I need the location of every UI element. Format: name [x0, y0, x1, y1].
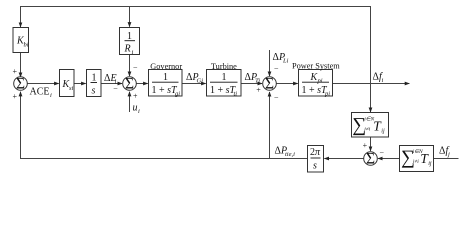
svg-text:−: − [380, 149, 385, 158]
svg-text:+: + [363, 141, 368, 150]
svg-text:1: 1 [127, 31, 132, 42]
svg-text:j≠i: j≠i [412, 159, 420, 165]
svg-text:u: u [133, 103, 138, 114]
svg-text:+: + [12, 92, 17, 101]
svg-text:pi: pi [317, 78, 323, 85]
svg-text:Power System: Power System [292, 61, 340, 70]
svg-text:Σ: Σ [265, 76, 274, 93]
svg-text:j≠i: j≠i [363, 127, 371, 133]
svg-text:1: 1 [92, 73, 97, 84]
svg-text:pi: pi [324, 91, 330, 98]
svg-text:si: si [69, 85, 74, 92]
svg-text:ACE: ACE [30, 87, 50, 98]
svg-text:i: i [382, 77, 384, 84]
svg-text:−: − [274, 93, 279, 102]
svg-text:+: + [256, 86, 261, 95]
svg-text:Ti: Ti [255, 78, 260, 85]
svg-text:−: − [113, 85, 118, 94]
svg-text:Σ: Σ [16, 76, 25, 93]
svg-text:+: + [12, 67, 17, 76]
svg-text:i: i [132, 49, 134, 56]
svg-text:i: i [50, 92, 52, 99]
svg-text:2π: 2π [310, 147, 321, 158]
svg-text:Turbine: Turbine [211, 62, 237, 71]
svg-text:Σ: Σ [125, 76, 134, 93]
svg-text:ti: ti [234, 91, 238, 98]
svg-text:Gi: Gi [197, 78, 204, 85]
svg-text:gi: gi [175, 91, 180, 98]
svg-text:tie,i: tie,i [285, 151, 295, 158]
svg-text:−: − [274, 65, 279, 74]
svg-text:−: − [133, 63, 138, 72]
svg-text:bi: bi [24, 42, 29, 49]
svg-text:R: R [124, 44, 131, 55]
svg-text:ij: ij [428, 161, 432, 167]
svg-text:Governor: Governor [150, 62, 182, 71]
svg-text:j: j [447, 151, 450, 158]
svg-text:Σ: Σ [366, 151, 375, 168]
svg-text:+: + [133, 92, 138, 101]
svg-text:ij: ij [381, 129, 385, 135]
svg-text:1: 1 [163, 72, 168, 83]
svg-text:1: 1 [222, 72, 227, 83]
svg-text:s: s [92, 86, 96, 97]
svg-text:Li: Li [282, 58, 289, 65]
svg-text:i: i [138, 108, 140, 115]
svg-text:s: s [313, 161, 317, 172]
